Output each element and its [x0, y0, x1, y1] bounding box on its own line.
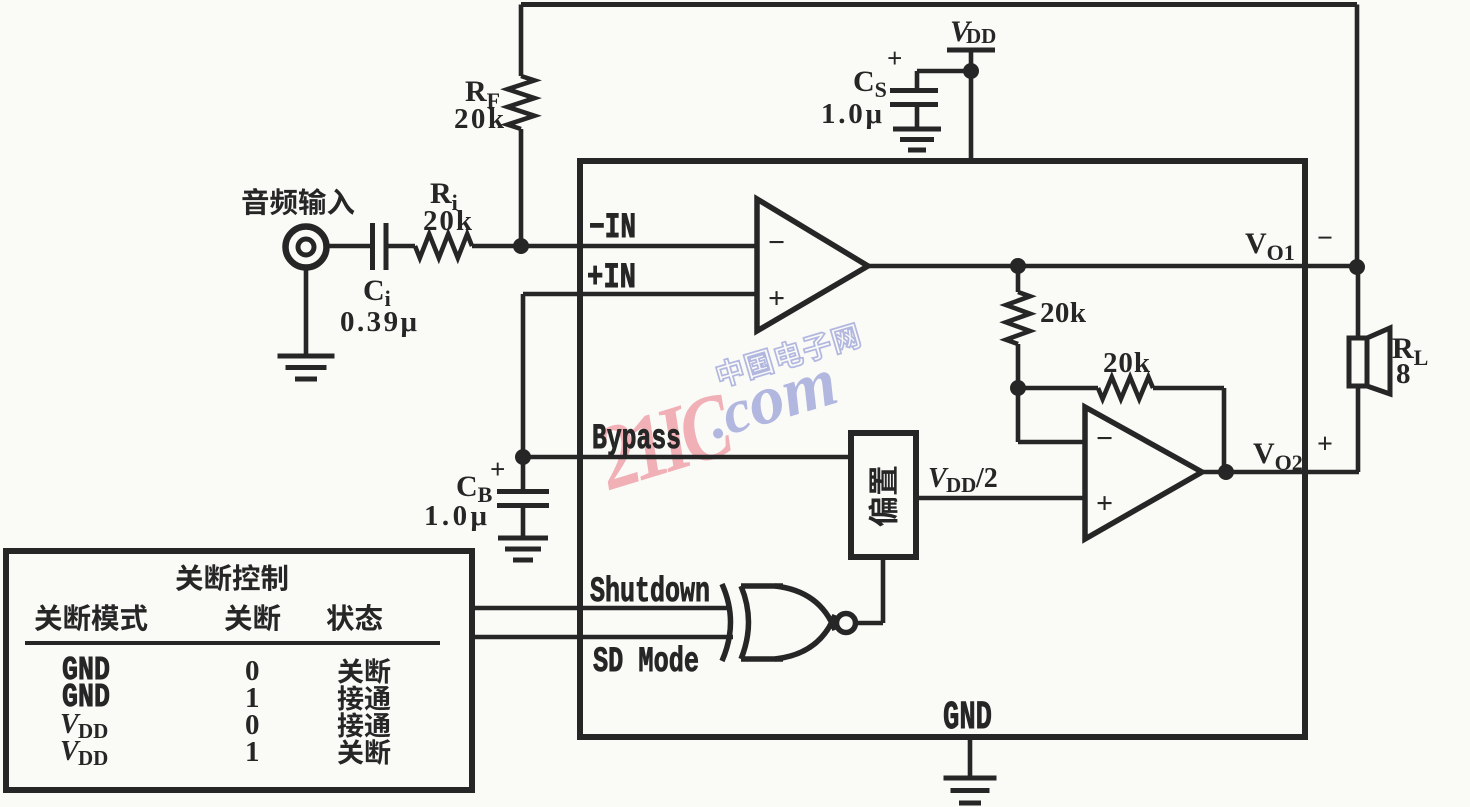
wire VO2 up to speaker: [1356, 386, 1361, 472]
svg-text:SD Mode: SD Mode: [593, 642, 699, 682]
wire top feedback VO1 to RF: [521, 2, 1357, 7]
wire RF top lead: [519, 5, 524, 77]
wire gate output to bias: [856, 621, 883, 626]
connector J1 audio input jack: [286, 227, 327, 268]
ground at IC GND: [944, 776, 997, 781]
svg-text:20k: 20k: [1103, 347, 1151, 379]
wire +IN down to bypass node: [521, 294, 526, 457]
ground at CS: [893, 127, 941, 132]
svg-text:20k: 20k: [1040, 297, 1087, 329]
svg-text:20k: 20k: [423, 205, 473, 237]
ground at CB: [498, 536, 548, 541]
gate XNOR shutdown logic: [722, 584, 731, 661]
svg-text:DD: DD: [78, 719, 108, 743]
wire VDD down into IC: [969, 71, 974, 161]
wire VDD to CS: [917, 69, 971, 74]
table title 关断控制: [176, 564, 203, 591]
svg-text:+: +: [1096, 487, 1113, 520]
node VDD junction: [963, 63, 979, 79]
node bypass junction: [515, 449, 531, 465]
speaker RL 8ohm: [1349, 338, 1367, 386]
svg-text:20k: 20k: [454, 103, 505, 135]
svg-text:+: +: [1317, 429, 1333, 460]
svg-text:+: +: [887, 43, 902, 73]
node output2 junction: [1218, 464, 1234, 480]
svg-text:+: +: [768, 282, 785, 315]
node -IN junction: [513, 238, 529, 254]
svg-text:DD: DD: [946, 473, 976, 497]
resistor R4 20k (horizontal, inside IC): [1018, 386, 1098, 391]
op-amp U1B: [1085, 407, 1202, 539]
resistor RF 20k (vertical): [508, 76, 535, 129]
node VO1 speaker junction: [1349, 259, 1365, 275]
node output1/R junction: [1010, 258, 1026, 274]
watermark 21IC.com 中国电子网: [584, 372, 744, 509]
wire Ci to Ri: [386, 244, 415, 249]
wire SD mode input: [475, 635, 733, 640]
capacitor CS 1.0u: [890, 88, 938, 93]
svg-text:−IN: −IN: [589, 208, 636, 248]
svg-text:−: −: [1317, 223, 1333, 254]
resistor Ri 20k (horizontal): [415, 234, 472, 258]
wire VO1 down to speaker: [1356, 267, 1361, 338]
svg-text:1.0μ: 1.0μ: [821, 98, 883, 130]
capacitor Ci 0.39u: [370, 223, 375, 270]
svg-text:DD: DD: [78, 746, 108, 770]
svg-text:8: 8: [1396, 358, 1411, 390]
resistor R3 20k (vertical, inside IC): [1016, 266, 1021, 292]
table header 状态: [327, 604, 354, 631]
svg-text:1: 1: [245, 736, 260, 768]
wire RF bottom lead to -IN node: [519, 129, 524, 246]
wire right vertical VO1 feedback: [1355, 5, 1360, 268]
svg-text:/2: /2: [975, 463, 998, 494]
capacitor CB 1.0u polarized: [521, 457, 526, 490]
svg-text:−: −: [1096, 422, 1113, 455]
svg-text:GND: GND: [943, 696, 992, 741]
svg-text:0.39μ: 0.39μ: [340, 306, 418, 338]
wire shutdown input: [475, 606, 727, 611]
svg-text:+: +: [490, 454, 505, 484]
wire +IN pin: [523, 292, 757, 297]
wire op-amp2 output VO2: [1202, 470, 1359, 475]
wire IC GND stem: [968, 740, 973, 777]
wire connector ground stem: [304, 268, 309, 354]
wire connector to Ci: [327, 244, 371, 249]
bias block 偏置: [851, 433, 916, 557]
svg-text:+IN: +IN: [587, 258, 636, 298]
wire Ri to -IN pin: [472, 244, 757, 249]
IC block U1 outline: [580, 161, 1305, 737]
wire Bypass pin: [523, 455, 851, 460]
wire op-amp1 output VO1: [868, 264, 1357, 269]
table header 关断: [225, 604, 252, 631]
ground at audio input: [278, 354, 335, 359]
svg-text:DD: DD: [966, 24, 996, 48]
svg-text:−: −: [768, 226, 785, 259]
table header underline: [25, 641, 440, 645]
node mid junction: [1010, 380, 1026, 396]
op-amp U1A: [757, 199, 868, 331]
svg-text:1.0μ: 1.0μ: [424, 500, 488, 532]
table 关断控制 shutdown control: [6, 551, 472, 790]
wire bias output VDD/2: [916, 496, 1085, 501]
wire to op-amp2 inverting input: [1016, 388, 1021, 442]
table header 关断模式: [35, 604, 62, 631]
label 音频输入 audio input: [242, 188, 268, 215]
svg-text:Bypass: Bypass: [592, 419, 681, 459]
